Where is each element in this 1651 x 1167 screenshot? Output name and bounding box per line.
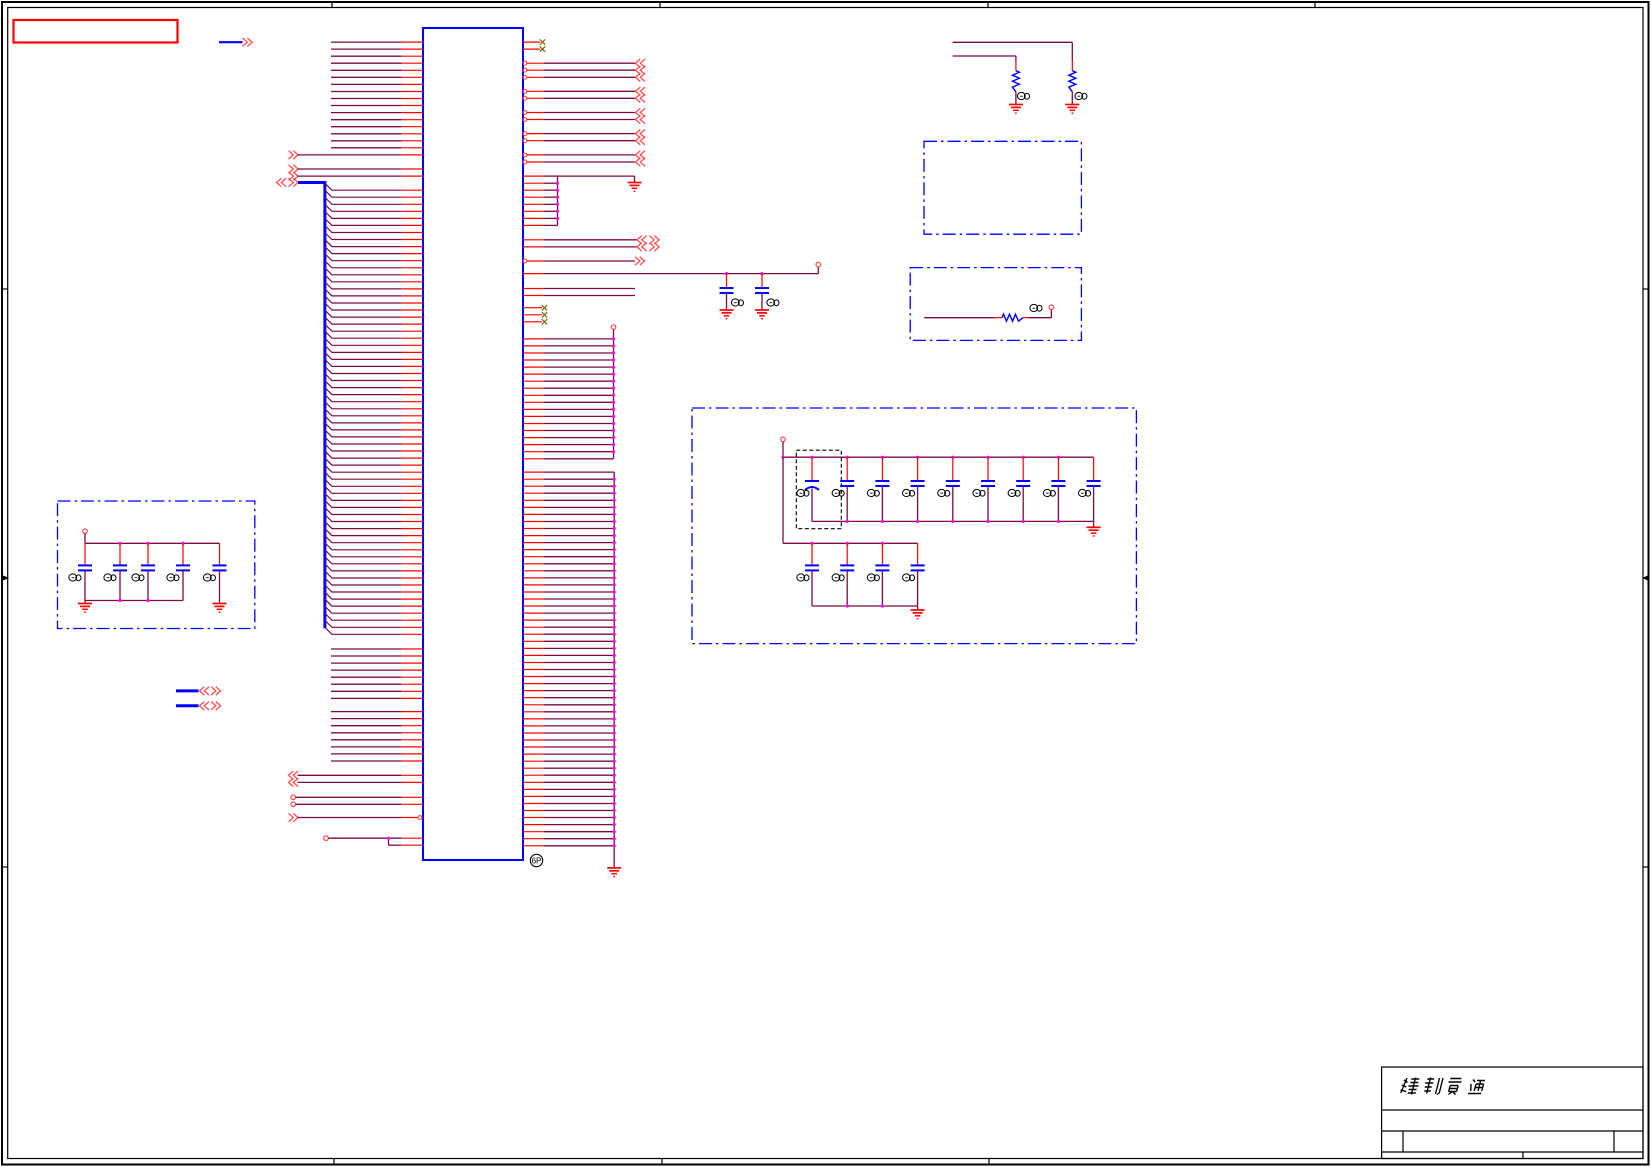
wire left pin with open terminal [291, 802, 423, 807]
capacitor C2 [755, 274, 769, 310]
wire left bus pin [325, 416, 423, 423]
bus stub with ports << >> [176, 702, 221, 710]
ground [1009, 105, 1023, 114]
wire left pin [331, 697, 423, 699]
wire left pin [331, 725, 423, 727]
wire left bus pin [325, 240, 423, 247]
wire left bus pin [325, 550, 423, 557]
border center arrow left [2, 575, 9, 581]
capacitor C11 designator [903, 489, 915, 496]
bulk capacitor option box (black dashed) [796, 450, 841, 529]
wire left pin [331, 732, 423, 734]
wire left pin with input port << [289, 778, 424, 786]
company name 緯創資通 (calligraphic) [1399, 1078, 1485, 1095]
wire left bus pin [325, 458, 423, 465]
junctions [846, 520, 1060, 523]
wire right pin long (power net) [523, 262, 821, 273]
wire left bus pin [325, 324, 423, 331]
capacitor C10 designator [867, 489, 879, 496]
capacitor C12 [946, 457, 960, 521]
wire net to resistor R1 [953, 56, 1016, 61]
junctions [118, 599, 149, 602]
junctions [612, 337, 615, 453]
wire left bus pin [325, 437, 423, 444]
wire left bus pin [325, 472, 423, 479]
wire left bus pin [325, 345, 423, 352]
capacitor C9 [840, 457, 854, 521]
wire left bus pin [325, 268, 423, 275]
wire left bus pin [325, 331, 423, 338]
wire left bus pin [325, 317, 423, 324]
resistor R3 designator [1030, 304, 1042, 311]
wire left pin [331, 147, 423, 149]
wire left pin with output port >> [289, 151, 424, 159]
wire right pin with input port << [523, 115, 645, 123]
capacitor C8 designator [797, 489, 809, 496]
power terminal [83, 529, 88, 543]
wire left bus pin [325, 536, 423, 543]
wire left bus pin [325, 508, 423, 515]
wire left pin [331, 760, 423, 762]
wire left pin [331, 676, 423, 678]
no-connect pin [523, 46, 545, 51]
wire left bus pin [325, 296, 423, 303]
wire left pin with open terminal [291, 795, 423, 800]
border center arrow right [1642, 575, 1649, 581]
wire left bus pin [325, 197, 423, 204]
power terminal [781, 437, 786, 457]
wire left bus pin [325, 585, 423, 592]
ground [213, 604, 227, 613]
capacitor C12 designator [938, 489, 950, 496]
wire left bus pin [325, 529, 423, 536]
wire left bus pin [325, 486, 423, 493]
wire left bus pin [325, 310, 423, 317]
wire bottom rail 2 [812, 605, 918, 607]
capacitor C9 designator [832, 489, 844, 496]
wire left bus pin [325, 183, 423, 190]
revision box (red rectangle) [14, 20, 178, 43]
capacitor C5 [141, 543, 155, 600]
bus to ground (8 pins) [523, 176, 635, 225]
junctions [781, 456, 1060, 459]
capacitor C19 [875, 543, 889, 606]
wire left pin [331, 41, 423, 43]
wire left bus pin [325, 613, 423, 620]
wire left bus pin [325, 211, 423, 218]
wire bottom rail 1 [812, 520, 1094, 522]
wire left pin [331, 91, 423, 93]
wire right pin with ports << >> [523, 243, 659, 251]
wire right pin with input port << [523, 129, 645, 137]
wire left bus pin [325, 493, 423, 500]
wire left bus pin [325, 190, 423, 197]
wire left pin [331, 746, 423, 748]
wire right pin [523, 295, 635, 297]
wire right pin with input port << [523, 87, 645, 95]
junctions [810, 542, 884, 545]
wire left bus pin [325, 606, 423, 613]
resistor R1 [1012, 61, 1019, 105]
wire left bus pin [325, 367, 423, 374]
wire left pin [331, 662, 423, 664]
wire left bus pin [325, 500, 423, 507]
capacitor C6 [176, 543, 190, 600]
wire left pin with output port >> [289, 165, 424, 173]
wire right pin with input port << [523, 59, 645, 67]
wire left pin [331, 718, 423, 720]
wire right pin with input port << [523, 137, 645, 145]
title block frame [1382, 1067, 1643, 1159]
wire top rail [85, 542, 220, 544]
wire right pin with input port << [523, 158, 645, 166]
wire left bus pin [325, 620, 423, 627]
ground [755, 310, 769, 319]
wire left bus pin [325, 275, 423, 282]
wire net to resistor R2 [953, 42, 1073, 61]
wire left pin with input port << [289, 771, 424, 779]
wire left bus pin [325, 381, 423, 388]
capacitor C5 designator [132, 574, 144, 581]
wire left bus pin [325, 444, 423, 451]
wire left pin [331, 648, 423, 650]
wire left pin [331, 683, 423, 685]
wire left pin [331, 739, 423, 741]
wire left pin [331, 48, 423, 50]
ground [1065, 105, 1079, 114]
wire left bus pin [325, 247, 423, 254]
wire right pin with input port << [523, 108, 645, 116]
wire left pin [331, 140, 423, 142]
IC U1 reference bubble 6P [530, 854, 542, 866]
decoupling bank box (dash-dot) [58, 501, 255, 629]
wire left bus pin [325, 233, 423, 240]
wire left pin [331, 69, 423, 71]
wire left bus pin [325, 289, 423, 296]
wire left pin with port >> and inverted pin bubble [289, 813, 422, 821]
capacitor C1 [720, 274, 734, 310]
bus with open terminal (18 pins) [523, 325, 616, 459]
junction [387, 837, 390, 840]
wire left bus pin [325, 395, 423, 402]
wire left bus pin [325, 627, 423, 634]
capacitor C20 [911, 543, 925, 606]
bus (blue) vertical [323, 181, 326, 628]
decoupling bank box large (dash-dot) [692, 408, 1136, 644]
wire left pin [331, 105, 423, 107]
wire left bus pin [325, 254, 423, 261]
wire left pin [331, 690, 423, 692]
junctions [846, 604, 884, 607]
ground [911, 606, 925, 619]
wire left bus pin [325, 423, 423, 430]
capacitor C19 designator [867, 574, 879, 581]
wire left pin [331, 112, 423, 114]
wire left bus pin [325, 226, 423, 233]
wire left bus pin [325, 599, 423, 606]
wire left bus pin [325, 261, 423, 268]
no-connect pin [523, 39, 545, 44]
capacitor C2 designator [767, 299, 779, 306]
capacitor C10 [875, 457, 889, 521]
wire left bus pin [325, 465, 423, 472]
wire from resistor R3 to terminal [1029, 305, 1054, 318]
bus entry ports << >> [277, 178, 299, 186]
wire left pin [331, 119, 423, 121]
wire left bus pin [325, 204, 423, 211]
wire right pin with input port << [523, 94, 645, 102]
wire right pin with input port << [523, 151, 645, 159]
capacitor C6 designator [167, 574, 179, 581]
wire left bus pin [325, 338, 423, 345]
wire left bus pin [325, 359, 423, 366]
capacitor C3 [78, 543, 92, 600]
ground [628, 183, 642, 192]
capacitor C8 [805, 457, 819, 521]
capacitor C17 [805, 543, 819, 606]
wire left pin with output port >> [289, 172, 424, 180]
resistor R2 [1069, 61, 1076, 105]
option box (dash-dot) empty [924, 141, 1081, 234]
wire left bus pin [325, 522, 423, 529]
capacitor C16 [1087, 457, 1101, 521]
capacitor C7 designator [203, 574, 215, 581]
no-connect pin [523, 305, 547, 310]
junctions [118, 542, 184, 545]
wire left bus pin [325, 564, 423, 571]
border zone ticks right [1643, 289, 1649, 867]
capacitor C13 [981, 457, 995, 521]
ground [607, 868, 621, 877]
border zone ticks bottom [334, 1159, 989, 1165]
ground [78, 601, 92, 613]
capacitor C11 [911, 457, 925, 521]
wire left bus pin [325, 282, 423, 289]
wire left pin [331, 62, 423, 64]
no-connect pin [523, 312, 547, 317]
wire left bus pin [325, 543, 423, 550]
wire left bus pin [325, 218, 423, 225]
wire left bus pin [325, 515, 423, 522]
wire left pin [331, 98, 423, 100]
wire left pin [331, 655, 423, 657]
capacitor C16 designator [1079, 489, 1091, 496]
resistor R2 designator [1075, 92, 1087, 99]
option box (dash-dot) with series resistor R3 [910, 268, 1081, 341]
wire right pin with input port << [523, 66, 645, 74]
ground [720, 310, 734, 319]
wire left pin [331, 83, 423, 85]
wire left pin [331, 126, 423, 128]
no-connect pin [523, 319, 547, 324]
capacitor C17 designator [797, 574, 809, 581]
capacitor C18 [840, 543, 854, 606]
ground [1087, 521, 1101, 536]
capacitor C13 designator [973, 489, 985, 496]
capacitor C1 designator [731, 299, 743, 306]
wire right pin with bubble and port >> [523, 257, 645, 265]
wire left bus pin [325, 571, 423, 578]
svg-text:6P: 6P [532, 857, 542, 866]
bus to ground (54 pins) [523, 472, 614, 868]
border zone ticks top [332, 2, 1315, 8]
resistor R3 [995, 314, 1029, 321]
wire right pin [523, 288, 635, 290]
border zone ticks left [2, 289, 8, 867]
wire right pin with ports << >> [523, 236, 659, 244]
bus (blue) horizontal entry [298, 181, 325, 184]
wire left pin [331, 76, 423, 78]
IC U1 (main chip body) [423, 28, 523, 860]
capacitor C4 [113, 543, 127, 600]
capacitor C20 designator [903, 574, 915, 581]
capacitor C4 designator [104, 574, 116, 581]
wire left bus pin [325, 479, 423, 486]
wire left bus pin [325, 303, 423, 310]
wire left bus pin [325, 451, 423, 458]
wire left pin [331, 133, 423, 135]
wire to resistor R3 [924, 317, 995, 319]
wire left pin [331, 753, 423, 755]
wire top rail 1 [783, 456, 1094, 458]
wire feed to bank 2 [783, 457, 918, 543]
off-page connector stub (blue wire with port arrow) [219, 38, 252, 46]
wire left bus pin [325, 557, 423, 564]
wire left pin [331, 55, 423, 57]
capacitor C3 designator [69, 574, 81, 581]
junction [725, 272, 728, 275]
wire left bus pin [325, 578, 423, 585]
capacitor C7 [213, 543, 227, 603]
wire left bus pin [325, 430, 423, 437]
junctions [556, 182, 559, 220]
wire left pin [331, 711, 423, 713]
wire left pin pair with open terminal [324, 836, 423, 845]
junctions [613, 478, 616, 848]
wire left bus pin [325, 592, 423, 599]
wire bottom rail [85, 600, 183, 602]
wire left bus pin [325, 402, 423, 409]
capacitor C15 designator [1043, 489, 1055, 496]
wire left bus pin [325, 374, 423, 381]
bus stub with ports << >> [176, 687, 221, 695]
wire right pin with input port << [523, 73, 645, 81]
capacitor C14 designator [1008, 489, 1020, 496]
resistor R1 designator [1017, 92, 1029, 99]
wire left bus pin [325, 388, 423, 395]
capacitor C15 [1051, 457, 1065, 521]
capacitor C14 [1016, 457, 1030, 521]
wire left bus pin [325, 352, 423, 359]
capacitor C18 designator [832, 574, 844, 581]
junction [760, 272, 763, 275]
wire left bus pin [325, 409, 423, 416]
wire left pin [331, 669, 423, 671]
